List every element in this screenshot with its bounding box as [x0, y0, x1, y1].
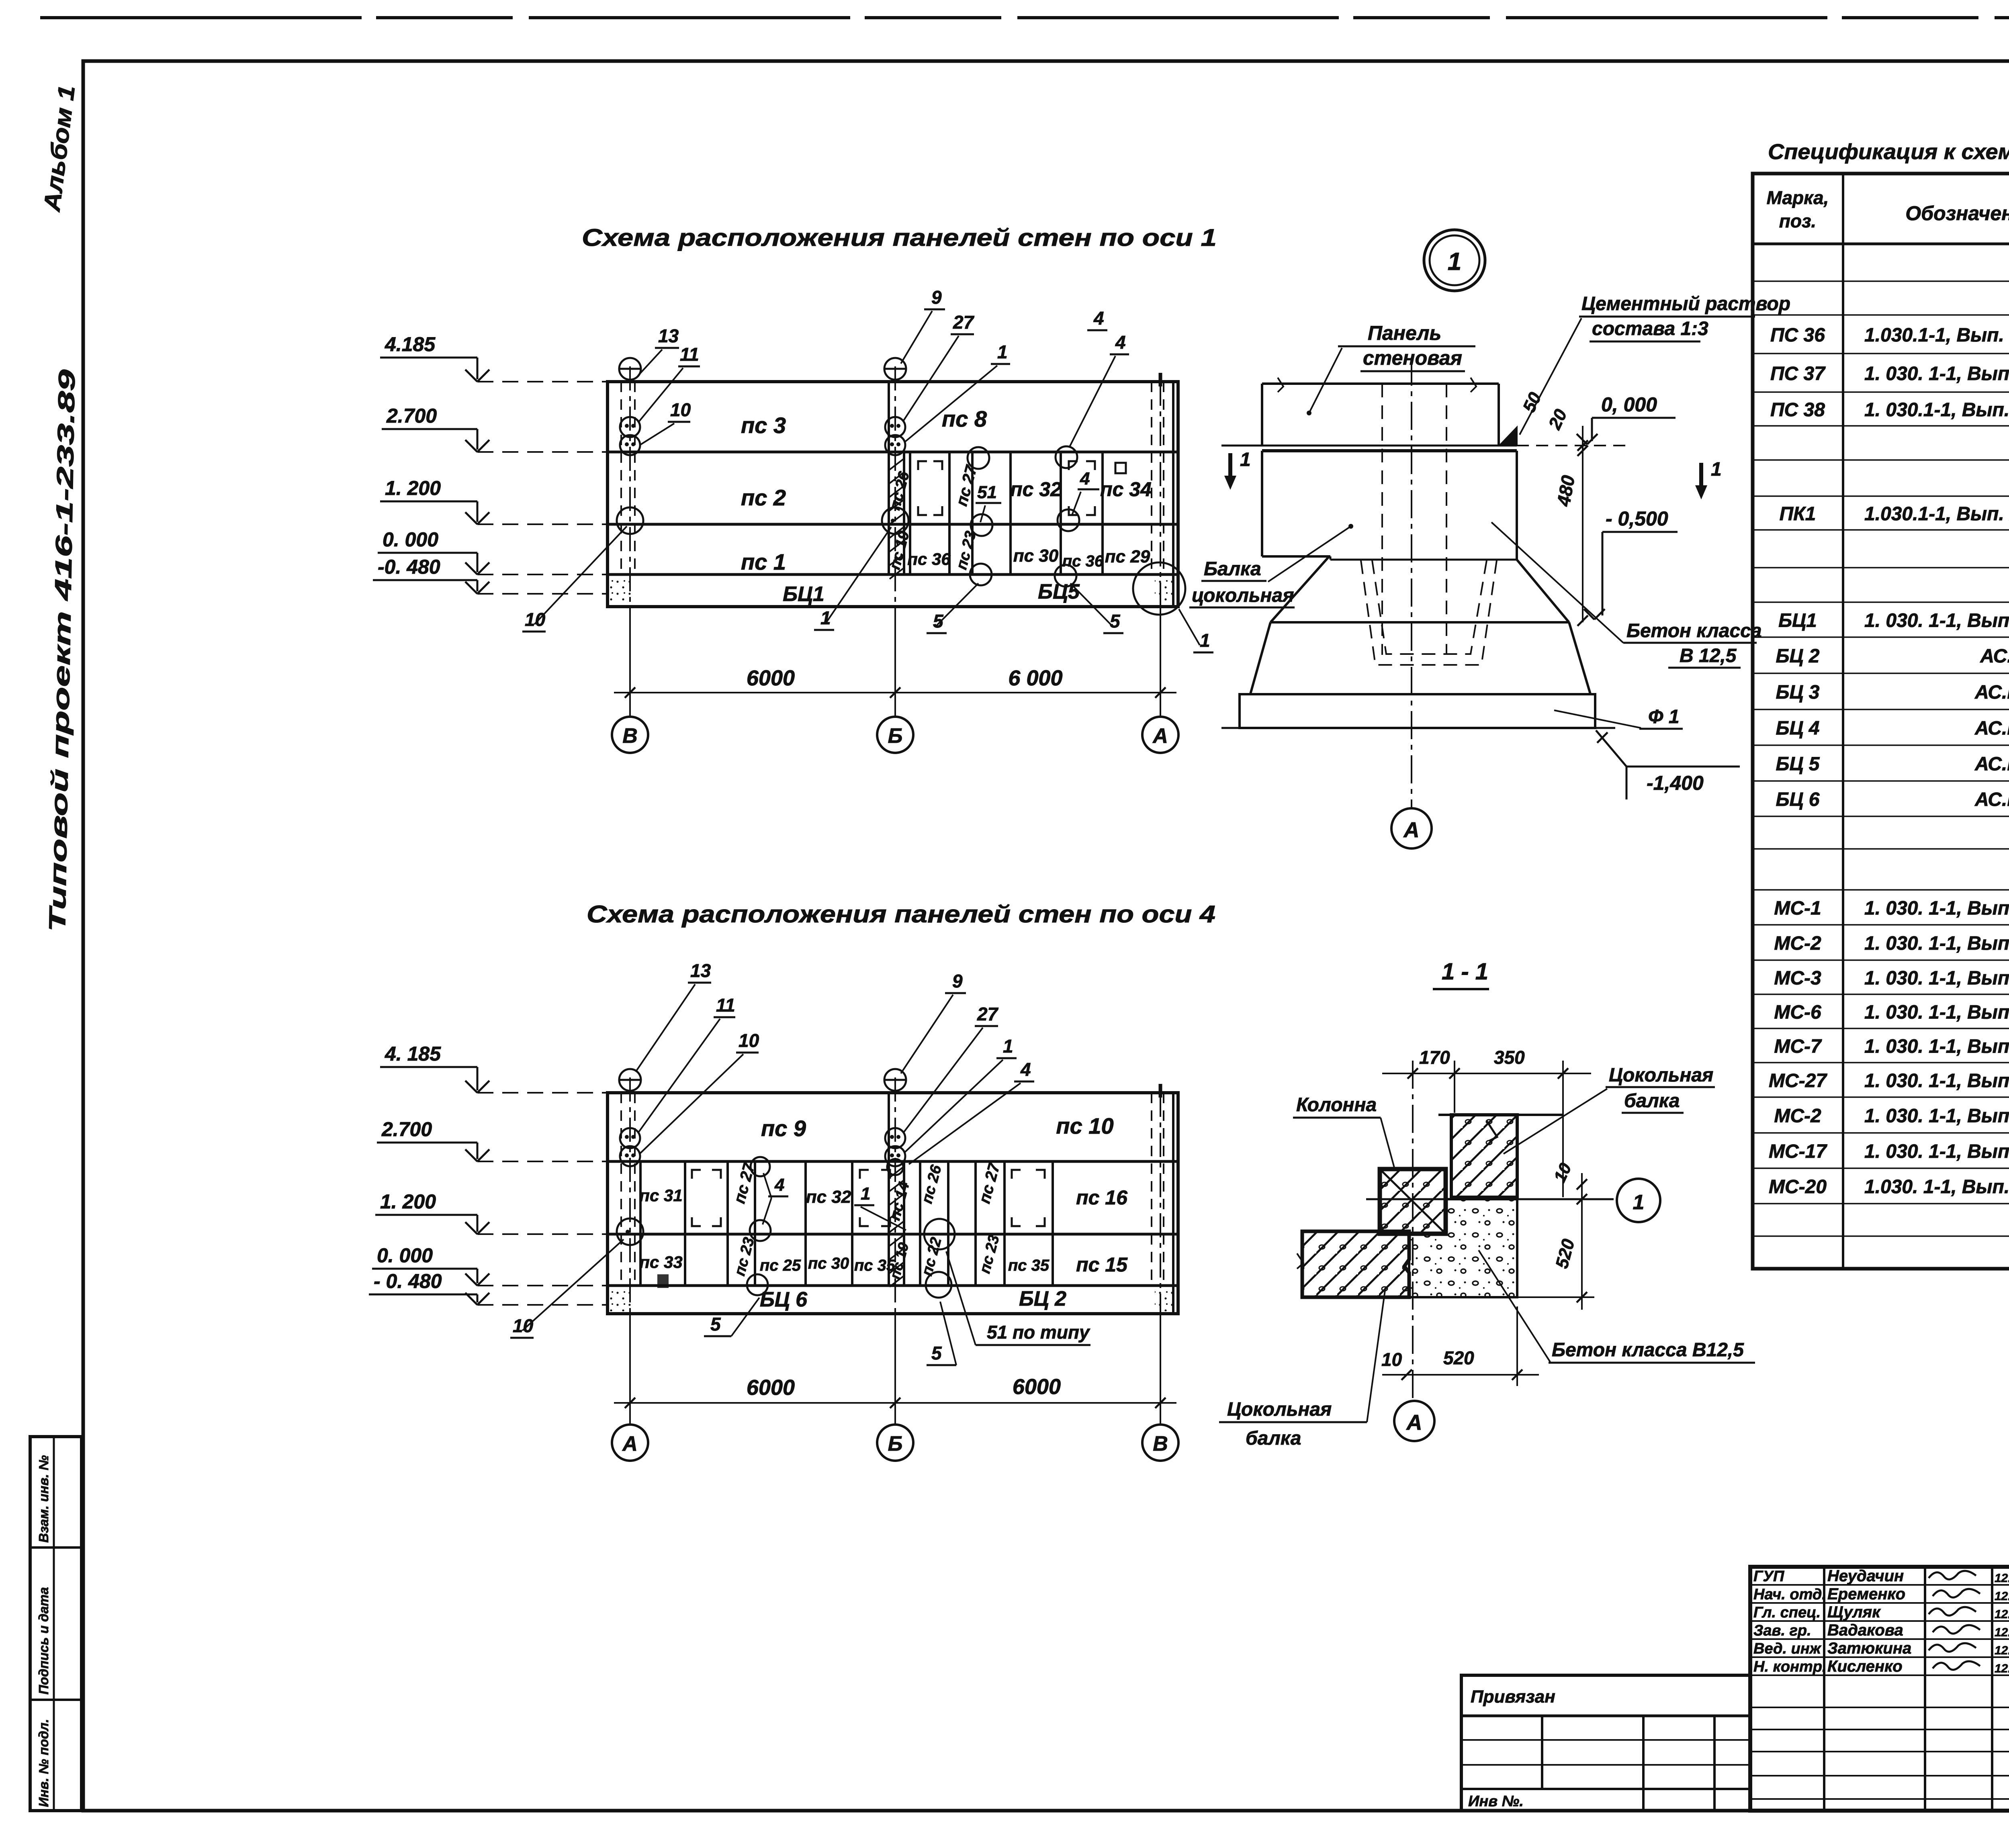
- callout 9: [901, 287, 945, 364]
- svg-text:12.89: 12.89: [1995, 1590, 2009, 1603]
- svg-text:9: 9: [952, 971, 963, 991]
- wall panel PS10: [1056, 1113, 1113, 1139]
- svg-text:пс 30: пс 30: [808, 1255, 849, 1272]
- svg-text:БЦ1: БЦ1: [1778, 610, 1817, 632]
- svg-text:Привязан: Привязан: [1471, 1687, 1555, 1707]
- svg-text:Кисленко: Кисленко: [1827, 1658, 1903, 1675]
- label beton klassa B12.5: [1491, 522, 1762, 668]
- svg-text:13: 13: [690, 960, 711, 981]
- section title 1-1: [1433, 959, 1489, 989]
- svg-text:12.89: 12.89: [1995, 1644, 2009, 1657]
- callout 1 s2: [905, 1036, 1017, 1152]
- svg-text:Инв №.: Инв №.: [1468, 1793, 1524, 1810]
- svg-text:4.185: 4.185: [385, 333, 436, 356]
- basement beam BTs1 label: [783, 583, 824, 606]
- svg-text:1. 030.1-1, Вып. 0-1, 1-1: 1. 030.1-1, Вып. 0-1, 1-1: [1864, 399, 2009, 421]
- svg-text:пс 14: пс 14: [886, 1180, 913, 1222]
- elevation 0.000: [378, 528, 608, 574]
- svg-text:балка: балка: [1246, 1428, 1301, 1449]
- svg-text:1: 1: [1003, 1036, 1013, 1057]
- title block staff names and signatures: [1753, 1567, 2009, 1675]
- wall panel PS27 right bay (rotated): [976, 1160, 1003, 1205]
- elevation 1.200: [380, 477, 608, 524]
- svg-text:пс 9: пс 9: [761, 1116, 806, 1141]
- scheme2 mounted panel corner marks: [692, 1170, 1045, 1226]
- elevation -1,400 detail: [1596, 730, 1740, 799]
- svg-text:МС-17: МС-17: [1769, 1141, 1827, 1162]
- svg-text:-1,400: -1,400: [1647, 772, 1704, 794]
- wall panel PS32: [1010, 478, 1062, 501]
- svg-text:1. 030. 1-1, Вып. 4-1: 1. 030. 1-1, Вып. 4-1: [1864, 898, 2009, 919]
- elevation 2.700: [382, 405, 608, 452]
- spec table grid: [1753, 174, 2009, 1269]
- dim 50 20 480 detail: [1519, 389, 1588, 626]
- svg-text:А: А: [1152, 724, 1168, 748]
- label cement mortar 1:3: [1520, 293, 1790, 435]
- svg-text:1: 1: [997, 341, 1008, 362]
- rotated label PS19 strip2: [886, 1241, 912, 1281]
- callout 10 bottom: [522, 526, 627, 632]
- section mark 1 left: [1225, 449, 1251, 488]
- svg-text:520: 520: [1443, 1347, 1474, 1368]
- svg-text:1. 030. 1-1, Вып. 3-1: 1. 030. 1-1, Вып. 3-1: [1864, 933, 2009, 954]
- scheme2 axis A line: [629, 1077, 631, 1425]
- svg-text:11: 11: [716, 995, 735, 1016]
- svg-text:Цокольная: Цокольная: [1227, 1399, 1332, 1420]
- svg-text:БЦ 3: БЦ 3: [1776, 682, 1819, 703]
- scheme1 line 0.000 / basement beam top: [608, 573, 1178, 576]
- title: Scheme of wall panels along axis 4: [587, 901, 1215, 928]
- wall panel PS31: [639, 1186, 682, 1205]
- callout 4 with leader: [1070, 332, 1129, 447]
- svg-text:1: 1: [1633, 1191, 1645, 1214]
- table row MS-17: [1769, 1141, 2009, 1162]
- scheme1 mounted panel corner marks row2: [918, 461, 1095, 515]
- svg-text:1: 1: [1711, 459, 1722, 480]
- svg-text:1. 030. 1-1, Вып. 1-1: 1. 030. 1-1, Вып. 1-1: [1864, 610, 2009, 632]
- svg-text:1 - 1: 1 - 1: [1442, 959, 1488, 985]
- scheme1 axis B line: [894, 366, 896, 717]
- table row PS36: [1770, 325, 2009, 346]
- svg-text:1. 200: 1. 200: [385, 477, 441, 499]
- svg-text:10: 10: [1381, 1349, 1402, 1370]
- svg-text:Обозначение: Обозначение: [1905, 202, 2009, 225]
- svg-text:2.700: 2.700: [386, 405, 437, 427]
- svg-text:1. 030. 1-1, Вып. 3-1: 1. 030. 1-1, Вып. 3-1: [1864, 1036, 2009, 1057]
- elevation 4.185: [380, 333, 608, 382]
- scheme1 building outline: [608, 382, 1178, 607]
- table row MS-20: [1769, 1176, 2009, 1198]
- elevation -0,500 detail: [1584, 507, 1678, 619]
- section concrete in-situ (stippled): [1409, 1199, 1517, 1297]
- section label beton klassa B12,5: [1479, 1250, 1755, 1363]
- spec table title: [1768, 140, 2009, 164]
- svg-text:10: 10: [525, 609, 546, 630]
- svg-text:пс 19: пс 19: [886, 1241, 912, 1281]
- wall panel PS30 scheme2: [808, 1255, 849, 1272]
- svg-text:пс 8: пс 8: [942, 406, 987, 431]
- callout 51 po tipu: [946, 1251, 1090, 1345]
- svg-text:6000: 6000: [747, 1376, 795, 1400]
- svg-text:пс 36: пс 36: [907, 550, 951, 568]
- svg-text:10: 10: [670, 399, 691, 420]
- wall panel PS36 row3: [907, 550, 951, 568]
- svg-text:состава 1:3: состава 1:3: [1592, 318, 1708, 339]
- table row BC1: [1778, 610, 2009, 632]
- section bottom dim 10/520: [1381, 1306, 1539, 1386]
- callout 1 bottom: [814, 527, 891, 630]
- svg-text:МС-27: МС-27: [1769, 1070, 1827, 1092]
- svg-text:Колонна: Колонна: [1296, 1094, 1377, 1116]
- table row MS-2: [1774, 933, 2009, 954]
- svg-text:Спецификация к схеме распол: Спецификация к схеме расположения панеле…: [1768, 140, 2009, 164]
- svg-text:В: В: [1153, 1432, 1168, 1456]
- elevation 0,000 detail: [1577, 393, 1676, 444]
- elevation 1.200 s2: [375, 1190, 608, 1234]
- svg-text:Б: Б: [888, 1432, 903, 1456]
- basement beam BTs6 label: [760, 1288, 808, 1311]
- detail basement beam body: [1262, 451, 1517, 560]
- svg-text:АС.И. 02. 01: АС.И. 02. 01: [1974, 754, 2009, 775]
- table row BC2: [1776, 646, 2009, 667]
- callout 27: [903, 312, 975, 421]
- svg-text:2.700: 2.700: [381, 1118, 432, 1141]
- section label kolonna: [1293, 1094, 1394, 1167]
- wall panel PS30 row3: [1013, 546, 1059, 566]
- svg-text:1. 030. 1-1, Вып. 3-1: 1. 030. 1-1, Вып. 3-1: [1864, 1070, 2009, 1092]
- svg-text:МС-20: МС-20: [1769, 1176, 1827, 1198]
- svg-text:0. 000: 0. 000: [377, 1244, 433, 1267]
- axis circle A: [1142, 717, 1178, 753]
- svg-text:4: 4: [1020, 1059, 1031, 1080]
- svg-text:ПК1: ПК1: [1780, 503, 1816, 525]
- svg-text:пс 31: пс 31: [639, 1186, 682, 1205]
- svg-text:пс 23: пс 23: [976, 1233, 1003, 1276]
- table row BC6: [1776, 789, 2009, 810]
- svg-text:-0. 480: -0. 480: [378, 556, 440, 578]
- svg-text:пс 27: пс 27: [953, 463, 980, 508]
- callout 27 s2: [903, 1004, 999, 1133]
- svg-text:пс 32: пс 32: [806, 1187, 851, 1207]
- section label tsokolnaya balka right: [1504, 1065, 1715, 1154]
- svg-text:1. 030. 1-1, Вып. 3-1: 1. 030. 1-1, Вып. 3-1: [1864, 1002, 2009, 1023]
- section lower-left beam block (hatched): [1297, 1231, 1409, 1297]
- wall panel PS2: [741, 485, 786, 510]
- callout 5 s2 bottom mid: [927, 1302, 956, 1365]
- svg-text:10: 10: [739, 1030, 759, 1051]
- section top dimension 170/350: [1382, 1047, 1591, 1197]
- scheme2 joint strip at axis B: [889, 1093, 904, 1287]
- svg-text:1: 1: [1200, 630, 1210, 651]
- svg-text:ПС 36: ПС 36: [1770, 325, 1825, 346]
- svg-text:5: 5: [1110, 611, 1121, 632]
- svg-text:Зав. гр.: Зав. гр.: [1753, 1622, 1811, 1639]
- section column square (hatched): [1380, 1169, 1446, 1234]
- section axis A vertical line: [1412, 1061, 1414, 1399]
- svg-text:12.89: 12.89: [1995, 1626, 2009, 1639]
- scheme1 dimension line 6000+6000: [614, 607, 1176, 717]
- section axis circle A: [1394, 1401, 1434, 1441]
- svg-text:6000: 6000: [1013, 1375, 1061, 1399]
- svg-text:Н. контр.: Н. контр.: [1753, 1658, 1827, 1675]
- rotated label PS19 on joint strip: [886, 529, 913, 572]
- svg-text:балка: балка: [1624, 1090, 1680, 1112]
- callout 4 inside scheme1: [1072, 469, 1099, 515]
- callout 1 top: [905, 341, 1010, 442]
- wall panel PS36b row3: [1062, 552, 1104, 570]
- callout 9 s2: [901, 971, 966, 1073]
- svg-text:пс 35: пс 35: [1008, 1257, 1050, 1274]
- svg-text:пс 16: пс 16: [1076, 1186, 1128, 1209]
- svg-text:1. 030. 1-1, Вып. 0-1, 1-1: 1. 030. 1-1, Вып. 0-1, 1-1: [1864, 363, 2009, 384]
- svg-text:10: 10: [1550, 1160, 1575, 1185]
- svg-text:Бетон класса В12,5: Бетон класса В12,5: [1552, 1339, 1744, 1361]
- svg-text:пс 36: пс 36: [1062, 552, 1104, 570]
- svg-text:БЦ 2: БЦ 2: [1776, 646, 1819, 667]
- callout 10 s2 bottom: [510, 1239, 624, 1338]
- scheme2 left corner dashed joints: [621, 1093, 635, 1286]
- svg-text:Б: Б: [888, 724, 903, 748]
- svg-text:МС-2: МС-2: [1774, 1106, 1821, 1127]
- svg-text:МС-2: МС-2: [1774, 933, 1821, 954]
- basement beam BTs5 label: [1038, 580, 1080, 603]
- rotated label PS26 right of axis B: [919, 1163, 945, 1206]
- svg-text:ПС 38: ПС 38: [1770, 399, 1825, 421]
- wall panel PS9: [761, 1116, 806, 1141]
- svg-text:5: 5: [710, 1314, 721, 1335]
- svg-text:Типовой проект 416-1-233.89: Типовой проект 416-1-233.89: [44, 369, 80, 932]
- scheme1 right corner panel dashed joints: [1152, 382, 1173, 607]
- svg-text:Вадакова: Вадакова: [1827, 1621, 1903, 1639]
- svg-text:1.030.1-1, Вып. 2-1: 1.030.1-1, Вып. 2-1: [1864, 503, 2009, 525]
- callout 13: [638, 325, 679, 376]
- svg-text:пс 29: пс 29: [1105, 547, 1150, 566]
- rotated label PS26 on joint strip: [886, 470, 913, 512]
- svg-text:Марка,: Марка,: [1767, 187, 1829, 208]
- svg-text:стеновая: стеновая: [1363, 347, 1462, 369]
- scheme1 corner stipple left: [609, 577, 632, 604]
- left stamp column (Vzam inv / Podpis i data / Inv N podl): [30, 1437, 82, 1811]
- svg-text:В 12,5: В 12,5: [1680, 645, 1737, 666]
- svg-text:пс 30: пс 30: [1013, 546, 1059, 566]
- callout 5 bottom right: [1070, 583, 1123, 633]
- scheme1 floor line 2.700: [608, 451, 1178, 454]
- scheme1 axis A top tick: [1159, 373, 1162, 386]
- svg-text:0, 000: 0, 000: [1601, 393, 1657, 416]
- scheme1 node circles axis B: [882, 358, 908, 534]
- wall panel PS3: [741, 413, 786, 438]
- label panel stenovaya: [1307, 322, 1475, 415]
- svg-text:0. 000: 0. 000: [383, 528, 438, 551]
- scheme2 axis V line: [1160, 1093, 1161, 1425]
- svg-text:4: 4: [1080, 469, 1090, 489]
- svg-text:пс 26: пс 26: [919, 1163, 945, 1206]
- wall panel PS23 right bay (rotated): [976, 1233, 1003, 1276]
- elevation 2.700 s2: [377, 1118, 608, 1161]
- svg-text:Неудачин: Неудачин: [1827, 1567, 1904, 1585]
- svg-text:БЦ 4: БЦ 4: [1776, 718, 1819, 739]
- callout 1 scheme2 mid: [854, 1184, 906, 1230]
- scheme1 node circles mid panels: [968, 446, 1079, 587]
- svg-text:5: 5: [933, 611, 944, 632]
- svg-text:51: 51: [977, 482, 997, 502]
- svg-text:350: 350: [1494, 1047, 1525, 1068]
- scheme2 floor line 1.200: [608, 1233, 1178, 1236]
- svg-text:Ф 1: Ф 1: [1648, 706, 1680, 728]
- wall panel PS23 (rotated) row3: [953, 529, 980, 572]
- scheme2 axis V top tick: [1159, 1084, 1162, 1098]
- detail center axis line: [1411, 358, 1412, 808]
- svg-text:- 0. 480: - 0. 480: [374, 1270, 442, 1292]
- scheme2 small panel dividers left bay: [640, 1161, 852, 1286]
- wall panel PS23 scheme2 (rotated): [731, 1236, 758, 1278]
- table row BC5: [1776, 754, 2009, 775]
- svg-text:4: 4: [774, 1175, 784, 1195]
- table row MS-27: [1769, 1070, 2009, 1092]
- wall panel PS35 right: [1008, 1257, 1050, 1274]
- svg-text:пс 23: пс 23: [731, 1236, 758, 1278]
- svg-text:1: 1: [1240, 449, 1251, 470]
- detail node circle 1: [1424, 230, 1485, 291]
- wall panel PS8: [942, 406, 987, 431]
- callout 11: [638, 344, 700, 423]
- table row MS-1: [1774, 898, 2009, 919]
- svg-text:Вед. инж: Вед. инж: [1753, 1640, 1822, 1657]
- elevation -0.480: [373, 556, 608, 594]
- scheme1 floor line 1.200: [608, 523, 1178, 526]
- svg-text:Панель: Панель: [1368, 322, 1441, 344]
- scheme1 node circles axis V: [617, 358, 643, 534]
- svg-text:1. 030. 1-1, Вып. 4-1: 1. 030. 1-1, Вып. 4-1: [1864, 968, 2009, 989]
- svg-text:ГУП: ГУП: [1753, 1568, 1784, 1585]
- svg-text:12.84: 12.84: [1995, 1662, 2009, 1675]
- svg-text:Гл. спец.: Гл. спец.: [1753, 1604, 1821, 1621]
- svg-text:БЦ 6: БЦ 6: [760, 1288, 808, 1311]
- svg-text:1.030.1-1, Вып. 0-1, 1-1: 1.030.1-1, Вып. 0-1, 1-1: [1864, 325, 2009, 346]
- svg-text:9: 9: [931, 287, 942, 308]
- table row MS-6: [1774, 1002, 2009, 1023]
- svg-text:БЦ1: БЦ1: [783, 583, 824, 606]
- callout 13 s2: [636, 960, 711, 1072]
- svg-text:Схема расположения панелей: Схема расположения панелей стен по оси 1: [582, 224, 1217, 251]
- svg-text:520: 520: [1552, 1237, 1578, 1270]
- rotated label PS14 strip: [886, 1180, 913, 1222]
- svg-text:А: А: [622, 1432, 638, 1456]
- scheme2 line 0.000: [608, 1284, 1178, 1287]
- margin note: Album 1 (rotated): [39, 84, 80, 214]
- sheet top edge line: [40, 16, 2009, 19]
- svg-text:БЦ 5: БЦ 5: [1776, 754, 1820, 775]
- hidden column dashed lines: [1382, 384, 1446, 655]
- svg-text:Еременко: Еременко: [1827, 1585, 1905, 1603]
- wall panel PS34: [1100, 463, 1152, 501]
- svg-text:АС.И. 02. 01: АС.И. 02. 01: [1974, 789, 2009, 810]
- scheme2 axis B line: [894, 1077, 896, 1425]
- svg-text:13: 13: [658, 325, 679, 346]
- elevation 0.000 s2: [372, 1244, 608, 1286]
- svg-text:МС-3: МС-3: [1774, 968, 1821, 989]
- detail 0.000 double line: [1221, 446, 1631, 451]
- svg-text:Бетон класса: Бетон класса: [1626, 620, 1762, 642]
- table row MS-7: [1774, 1036, 2009, 1057]
- svg-text:20: 20: [1545, 406, 1571, 433]
- svg-text:1. 200: 1. 200: [380, 1190, 436, 1213]
- foundation socket dashed: [1361, 560, 1497, 665]
- cement mortar wedge: [1500, 427, 1517, 446]
- label tsokolnaya balka bottom right of scheme2: [1219, 1288, 1385, 1449]
- svg-text:пс 15: пс 15: [1076, 1253, 1128, 1276]
- svg-text:пс 34: пс 34: [1100, 478, 1152, 501]
- svg-text:пс 25: пс 25: [760, 1257, 801, 1274]
- label balka tsokolnaya: [1189, 524, 1353, 607]
- svg-text:МС-7: МС-7: [1774, 1036, 1822, 1057]
- svg-text:АС.И. 02. 01: АС.И. 02. 01: [1974, 718, 2009, 739]
- scheme2 building outline: [608, 1093, 1178, 1314]
- section axis circle 1: [1617, 1179, 1660, 1222]
- svg-text:1: 1: [861, 1184, 870, 1204]
- svg-text:51 по типу: 51 по типу: [987, 1322, 1090, 1343]
- scheme2 corner stipple right: [1155, 1288, 1176, 1311]
- rotated label PS22: [919, 1236, 945, 1278]
- axis circle B: [877, 717, 913, 753]
- axis circle B s2: [877, 1425, 913, 1461]
- spec table header: [1767, 187, 2009, 231]
- svg-text:4: 4: [1115, 332, 1126, 353]
- svg-text:- 0,500: - 0,500: [1606, 507, 1668, 530]
- callout 4 underlined top: [1087, 308, 1107, 330]
- svg-text:1: 1: [1448, 248, 1461, 276]
- callout 11 s2: [638, 995, 735, 1133]
- svg-text:БЦ 6: БЦ 6: [1776, 789, 1819, 810]
- wall panel PS35 left: [854, 1257, 896, 1274]
- svg-text:11: 11: [680, 344, 699, 365]
- svg-text:Схема расположения панелей: Схема расположения панелей стен по оси 4: [587, 901, 1215, 928]
- wall panel PS1: [741, 549, 786, 574]
- callout 5 s2 bottom left: [704, 1298, 759, 1336]
- wall panel PS32 scheme2: [806, 1187, 851, 1207]
- svg-text:Нач. отд.: Нач. отд.: [1753, 1586, 1826, 1603]
- svg-text:6 000: 6 000: [1008, 666, 1062, 690]
- title: Scheme of wall panels along axis 1: [582, 224, 1217, 251]
- scheme1 corner detail circle (node 1): [1133, 562, 1185, 615]
- table row PS37: [1770, 363, 2009, 384]
- svg-text:цокольная: цокольная: [1192, 585, 1294, 606]
- svg-text:Балка: Балка: [1204, 558, 1261, 580]
- svg-text:Затюкина: Затюкина: [1827, 1639, 1911, 1657]
- svg-text:Щуляк: Щуляк: [1827, 1603, 1881, 1621]
- title block vertical dividers left part: [1824, 1567, 2009, 1811]
- svg-text:АС.И.02. 01: АС.И.02. 01: [1980, 646, 2009, 667]
- label F1: [1554, 706, 1683, 729]
- wall panel PS33: [639, 1253, 682, 1288]
- section mark 1 right: [1696, 459, 1722, 497]
- ground line -1.400: [1221, 727, 1615, 729]
- svg-text:1. 030. 1-1, Вып. 3-1: 1. 030. 1-1, Вып. 3-1: [1864, 1106, 2009, 1127]
- node mark 51: [976, 482, 1001, 522]
- svg-text:4. 185: 4. 185: [385, 1043, 441, 1065]
- callout 10: [640, 399, 691, 445]
- axis circle A s2: [612, 1425, 648, 1461]
- table row MS-3: [1774, 968, 2009, 989]
- svg-text:Подпись и дата: Подпись и дата: [36, 1587, 51, 1695]
- margin note: Tipovoy proekt 416-1-233.89 (rotated): [44, 369, 80, 932]
- svg-text:МС-1: МС-1: [1774, 898, 1821, 919]
- elevation -0.480 s2: [369, 1270, 608, 1305]
- scheme1 small panel dividers: [910, 452, 1103, 574]
- svg-text:4: 4: [1093, 308, 1104, 329]
- svg-text:480: 480: [1553, 474, 1579, 508]
- table row BC4: [1776, 718, 2009, 739]
